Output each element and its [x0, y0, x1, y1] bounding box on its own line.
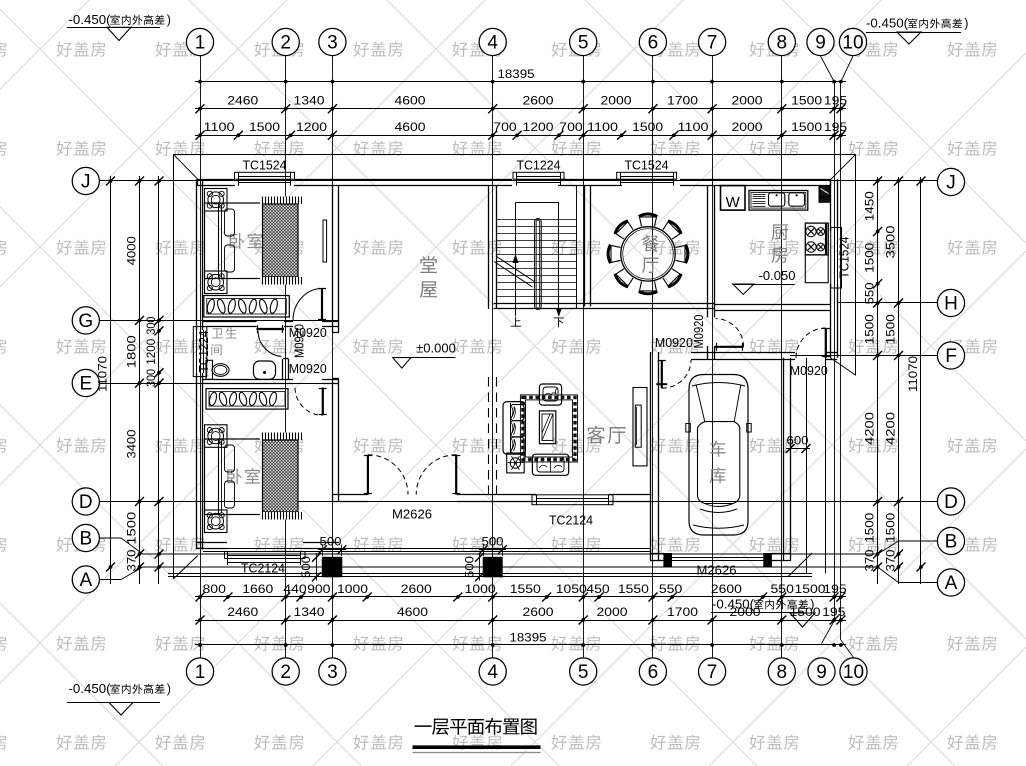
- svg-text:550: 550: [771, 582, 795, 596]
- svg-text:1500: 1500: [862, 314, 876, 344]
- svg-text:370: 370: [883, 549, 897, 571]
- svg-text:5: 5: [578, 662, 589, 683]
- svg-text:1000: 1000: [465, 582, 496, 596]
- svg-text:800: 800: [203, 582, 227, 596]
- svg-text:700: 700: [559, 120, 583, 134]
- svg-text:G: G: [78, 311, 93, 332]
- svg-text:300: 300: [146, 317, 158, 335]
- svg-text:2600: 2600: [401, 582, 432, 596]
- svg-text:TC1524: TC1524: [243, 158, 287, 173]
- svg-text:-0.450(: -0.450(: [69, 13, 112, 27]
- svg-text:E: E: [79, 374, 92, 395]
- svg-text:D: D: [79, 492, 93, 513]
- svg-text:1100: 1100: [204, 120, 235, 134]
- axis bubbles: [186, 28, 213, 55]
- svg-text:): ): [964, 17, 968, 31]
- svg-text:4200: 4200: [862, 412, 876, 445]
- eave/canopy outline and porch slab: [173, 154, 856, 156]
- svg-text:): ): [167, 682, 171, 696]
- walls: [198, 179, 235, 181]
- svg-text:M0920: M0920: [293, 324, 307, 358]
- svg-text:440: 440: [283, 582, 307, 596]
- svg-text:1700: 1700: [667, 94, 698, 108]
- svg-text:1100: 1100: [587, 120, 618, 134]
- svg-text:J: J: [81, 172, 91, 193]
- title 一层平面布置图: [415, 725, 432, 727]
- svg-text:900: 900: [307, 582, 331, 596]
- svg-text:3: 3: [327, 33, 338, 54]
- svg-text:M2626: M2626: [697, 564, 737, 578]
- svg-text:1500: 1500: [791, 94, 822, 108]
- svg-text:1550: 1550: [618, 582, 649, 596]
- svg-text:A: A: [79, 570, 92, 591]
- svg-text:TC1224: TC1224: [517, 158, 561, 173]
- svg-text:9: 9: [815, 33, 826, 54]
- svg-text:500: 500: [299, 556, 313, 578]
- windows TC1524/TC1224/TC2124: [235, 172, 295, 179]
- svg-text:2000: 2000: [597, 605, 628, 619]
- svg-text:2: 2: [280, 33, 291, 54]
- svg-text:1500: 1500: [791, 120, 822, 134]
- svg-text:A: A: [945, 573, 958, 594]
- svg-text:): ): [167, 13, 171, 27]
- svg-text:10: 10: [842, 33, 863, 54]
- svg-text:370: 370: [125, 549, 139, 571]
- svg-text:1: 1: [195, 33, 206, 54]
- svg-text:1500: 1500: [862, 242, 876, 272]
- svg-text:2000: 2000: [601, 94, 632, 108]
- svg-text:1500: 1500: [883, 314, 897, 344]
- svg-text:4600: 4600: [395, 120, 426, 134]
- svg-text:3: 3: [327, 662, 338, 683]
- svg-text:-0.050: -0.050: [759, 268, 796, 283]
- svg-text:700: 700: [493, 120, 517, 134]
- svg-text:8: 8: [777, 662, 788, 683]
- svg-text:2: 2: [280, 662, 291, 683]
- bathroom fixtures: [206, 360, 213, 379]
- svg-text:J: J: [946, 173, 956, 194]
- svg-text:H: H: [944, 294, 958, 315]
- dimension lines and values: [195, 81, 846, 83]
- svg-text:M0920: M0920: [790, 364, 828, 378]
- svg-text:TC1524: TC1524: [625, 158, 669, 173]
- svg-text:18395: 18395: [498, 67, 535, 81]
- svg-text:4: 4: [487, 33, 498, 54]
- svg-text:TC1524: TC1524: [837, 236, 851, 278]
- svg-text:1500: 1500: [125, 511, 139, 544]
- svg-text:550: 550: [862, 282, 876, 304]
- svg-text:1660: 1660: [242, 582, 273, 596]
- svg-text:1500: 1500: [249, 120, 280, 134]
- svg-text:1700: 1700: [667, 605, 698, 619]
- svg-text:4200: 4200: [883, 412, 897, 445]
- staircase: [496, 219, 577, 221]
- svg-text:W: W: [726, 194, 741, 211]
- svg-text:18395: 18395: [510, 630, 547, 644]
- svg-text:7: 7: [707, 662, 718, 683]
- doors M0920/M2626: [257, 328, 285, 330]
- svg-text:1500: 1500: [862, 513, 876, 543]
- svg-text:-0.450(: -0.450(: [712, 598, 755, 612]
- svg-text:-0.450(: -0.450(: [69, 682, 112, 696]
- svg-text:7: 7: [707, 33, 718, 54]
- svg-text:5: 5: [578, 33, 589, 54]
- room labels: [230, 233, 245, 248]
- svg-text:8: 8: [777, 33, 788, 54]
- bedroom furniture: [205, 189, 228, 212]
- svg-text:±0.000: ±0.000: [416, 341, 456, 356]
- svg-text:10: 10: [843, 662, 864, 683]
- svg-text:300: 300: [146, 369, 158, 387]
- svg-text:B: B: [79, 529, 92, 550]
- svg-text:1200: 1200: [146, 339, 158, 365]
- svg-text:500: 500: [463, 556, 477, 578]
- living room furniture: [488, 377, 490, 495]
- svg-text:2000: 2000: [732, 120, 763, 134]
- svg-text:F: F: [945, 346, 957, 367]
- kitchen fixtures: [721, 186, 746, 211]
- svg-text:11070: 11070: [906, 356, 920, 392]
- svg-text:1200: 1200: [296, 120, 327, 134]
- svg-text:3500: 3500: [883, 225, 897, 258]
- svg-text:B: B: [945, 532, 958, 553]
- svg-text:6: 6: [648, 662, 659, 683]
- dining table and chairs: [621, 227, 675, 281]
- svg-text:-0.450(: -0.450(: [866, 17, 909, 31]
- svg-text:TC2124: TC2124: [241, 561, 285, 576]
- svg-text:1500: 1500: [632, 120, 663, 134]
- garage car: [689, 375, 748, 536]
- svg-text:1050: 1050: [556, 582, 587, 596]
- svg-text:M0920: M0920: [655, 336, 693, 350]
- svg-text:600: 600: [787, 434, 809, 448]
- svg-text:370: 370: [862, 549, 876, 571]
- svg-text:550: 550: [659, 582, 683, 596]
- svg-text:6: 6: [648, 33, 659, 54]
- svg-text:1000: 1000: [337, 582, 368, 596]
- svg-text:M0920: M0920: [289, 362, 327, 376]
- svg-text:TC2124: TC2124: [549, 513, 593, 528]
- svg-text:500: 500: [482, 535, 504, 549]
- svg-text:450: 450: [586, 582, 610, 596]
- svg-text:2000: 2000: [732, 94, 763, 108]
- svg-text:9: 9: [816, 662, 827, 683]
- svg-text:1100: 1100: [678, 120, 709, 134]
- svg-text:2600: 2600: [711, 582, 742, 596]
- svg-text:195: 195: [822, 605, 846, 619]
- svg-text:2460: 2460: [227, 94, 258, 108]
- svg-text:1340: 1340: [294, 94, 325, 108]
- svg-text:4600: 4600: [395, 94, 426, 108]
- svg-text:195: 195: [823, 582, 847, 596]
- svg-text:2460: 2460: [227, 605, 258, 619]
- svg-text:1450: 1450: [862, 191, 876, 221]
- svg-text:11070: 11070: [96, 356, 110, 392]
- svg-text:3400: 3400: [125, 429, 139, 458]
- svg-text:): ): [810, 598, 814, 612]
- svg-text:1200: 1200: [523, 120, 554, 134]
- svg-text:4: 4: [487, 662, 498, 683]
- svg-text:4000: 4000: [125, 236, 139, 265]
- svg-text:D: D: [944, 492, 958, 513]
- svg-text:195: 195: [824, 120, 848, 134]
- grid axis lines 1-10 and J,G,E,H,F,D,B,A: [200, 56, 202, 658]
- svg-text:M0920: M0920: [692, 314, 706, 348]
- svg-text:TC1224: TC1224: [197, 330, 211, 372]
- svg-text:1500: 1500: [883, 513, 897, 543]
- svg-text:M2626: M2626: [392, 508, 432, 522]
- svg-text:1: 1: [195, 662, 206, 683]
- svg-text:2600: 2600: [523, 94, 554, 108]
- svg-text:1800: 1800: [125, 335, 139, 368]
- svg-text:4600: 4600: [397, 605, 428, 619]
- svg-text:2600: 2600: [523, 605, 554, 619]
- svg-text:1340: 1340: [294, 605, 325, 619]
- svg-text:1550: 1550: [510, 582, 541, 596]
- svg-text:1500: 1500: [795, 582, 826, 596]
